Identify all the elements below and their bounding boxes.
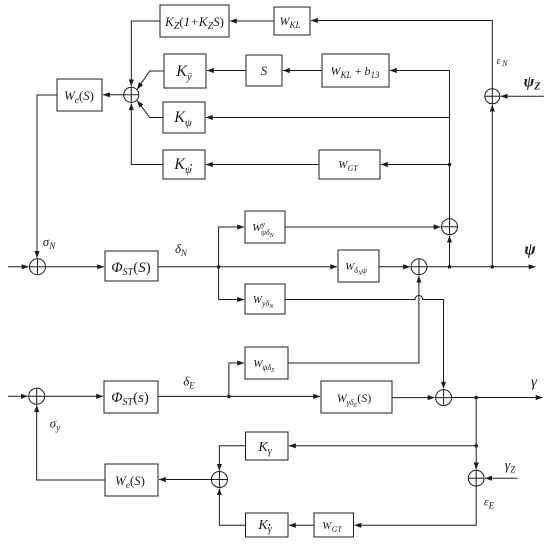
block W_GT top [319,150,380,179]
block W_deltaN-psi [338,250,379,282]
wire: W_GT to K_psidot [206,164,319,166]
wire: psi branch up into upper sum [449,236,451,267]
wire: gamma output line [452,397,543,399]
wire: delta_N line from Phi_ST(S) to W_deltaN-psi [158,266,337,268]
summing junction psi [411,259,427,275]
wire: top sum to W_e(S) [103,94,124,96]
wire: eps_N rail to W_KL [311,21,492,89]
block W_psi-deltaE [245,347,288,379]
svg-text:ψ: ψ [524,240,536,259]
summing junction gamma [436,390,452,406]
node feedback rail W_GT branch [448,163,452,167]
block W_KL+b13 [322,54,389,87]
wire: W_deltaN-psi to psi summing junction [379,266,410,268]
wire: gamma_Z sum down and left to W_GT bottom [355,486,477,525]
wire: W_KL+b13 to S [283,70,322,72]
node on delta_E line [227,395,231,399]
svg-text:ψZ: ψZ [524,74,541,93]
node psi line branch 1 [448,265,452,269]
wire: input to sigma_N summing junction [8,266,29,268]
summing junction top (to W_e) [124,87,139,102]
wire: branch up to W^y block [219,227,244,267]
block K_gamma [246,432,289,460]
wire: feedback branch to K_psi [206,117,450,119]
block W_KL [274,7,310,35]
svg-text:δN: δN [175,241,188,258]
block W_e(S) top [57,79,102,111]
summing junction gamma_Z [468,470,484,486]
summing junction sigma_N [30,259,46,275]
block K_Z(1+K_Z S) [160,5,229,37]
wire: input to sigma_y summing junction [8,395,28,397]
node K_gamma branch [474,444,478,448]
block W_y-deltaN [245,284,285,314]
block K_ydd [164,54,206,88]
wire: branch to K_gamma [289,445,476,447]
wire: K_ydd diagonal into top sum [137,71,164,89]
wire: branch down to W_y-deltaN block [219,267,244,300]
wire: psi feedback up into psi_Z sum [491,105,493,267]
wire: gamma_Z input [485,477,517,479]
block W_gamma-deltaE(S) [321,381,392,413]
summing junction psi_Z [485,89,500,104]
wire: feedback branch to W_GT [381,164,450,166]
block S [246,55,282,86]
wire: bottom sum to W_e(S) [159,479,211,481]
block W_GT bottom [314,513,354,537]
wire: K_psidot to top sum bottom [131,103,163,164]
summing junction upper (psi + bending) [442,219,458,235]
block W_e(S) bottom [105,464,158,496]
block K_psidot [163,150,205,179]
wire: sigma_N junction to Phi_ST(S) [46,266,105,268]
svg-text:δE: δE [183,374,195,391]
wire: W_gamma-deltaE to gamma sum [392,397,435,399]
block K_psi [163,102,205,133]
svg-text:S: S [261,63,268,78]
wire: W_GT to K_gammadot [289,524,314,526]
svg-text:σN: σN [43,234,56,251]
wire: K_gammadot up into bottom sum [219,488,245,525]
wire: W^y output to upper sum [285,226,441,228]
wire: delta_E line from Phi_ST(s) to W_gamma-deltaE [158,395,320,397]
svg-text:γZ: γZ [505,459,517,475]
node gamma line branch [474,396,478,400]
wire: W_y-deltaN output with hop down to gamma sum [285,296,444,389]
wire: upper sum output feedback rail [390,71,450,219]
node on delta_N line [217,265,221,269]
wire: K_psi diagonal into top sum [137,101,163,118]
summing junction bottom (to W_e) [211,472,227,488]
svg-text:σy: σy [50,416,60,433]
svg-text:ε N: ε N [497,56,509,68]
wire: W_psi-deltaE up into psi sum [288,276,419,363]
svg-text:γ: γ [531,375,538,391]
wire: K_gamma down into bottom sum [219,446,245,471]
svg-text:We(S): We(S) [64,88,94,105]
wire: psi_Z input [501,95,544,97]
wire: branch up to W_psi-deltaE [229,363,244,396]
block Phi_ST(s) [104,381,158,413]
wire: K_Z block output into top sum [131,21,160,86]
block K_gammadot [246,513,289,537]
block W^y_psi-deltaN [245,211,285,243]
wire: W_KL to K_Z block [230,20,274,22]
svg-text:We(S): We(S) [115,473,145,490]
svg-text:εE: εE [484,495,495,511]
wire: W_e(S) output down to sigma_N sum [37,95,57,258]
wire: sigma_y junction to Phi_ST(s) [45,395,103,397]
wire: gamma feedback down into gamma_Z sum [475,398,477,470]
node psi line branch 2 [491,265,495,269]
summing junction sigma_y [29,388,45,404]
wire: W_e(S) bottom output up to sigma_y sum [37,405,105,480]
block Phi_ST(S) [105,251,158,281]
wire: S to K_ydd [207,70,246,72]
wire: psi output line [427,266,536,268]
